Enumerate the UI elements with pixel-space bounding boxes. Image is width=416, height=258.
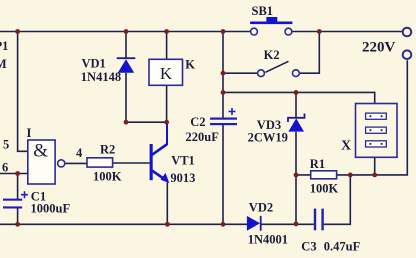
diode VD1 <box>117 58 136 72</box>
junction relay top <box>164 29 169 34</box>
switch K2 <box>258 61 300 76</box>
junction K2 rail <box>221 71 226 76</box>
wire C1 branch <box>17 174 19 225</box>
junction C3 riser top <box>348 173 353 178</box>
svg-text:R2: R2 <box>100 143 115 157</box>
wire R1 row <box>296 60 407 175</box>
junction X feed rail <box>221 90 226 95</box>
svg-text:K: K <box>160 64 173 83</box>
IC gate I (NAND) <box>28 140 65 184</box>
junction C1 bottom <box>15 222 20 227</box>
junction R1 left <box>294 173 299 178</box>
junction rail top <box>221 29 226 34</box>
wire emitter down <box>166 183 168 225</box>
terminal 220V top <box>403 28 412 37</box>
transistor VT1 <box>150 123 170 183</box>
wire VD1 branch <box>126 32 167 123</box>
resistor R1 <box>311 171 337 179</box>
svg-text:P1: P1 <box>0 39 8 53</box>
svg-text:VD1: VD1 <box>82 57 106 71</box>
wire pin6 input <box>0 173 28 175</box>
capacitor C3 <box>314 209 324 231</box>
relay coil K <box>149 59 183 85</box>
wire top rail left <box>0 31 251 33</box>
connector X <box>356 104 398 158</box>
wire VD3 branch <box>295 92 297 224</box>
resistor R2 <box>87 158 113 167</box>
svg-text:1N4148: 1N4148 <box>81 70 121 84</box>
junction rail bottom <box>221 222 226 227</box>
svg-text:0.47uF: 0.47uF <box>324 239 361 253</box>
junction X bottom <box>372 173 377 178</box>
junction pin6 <box>15 171 20 176</box>
junction VD1 corner <box>124 120 129 125</box>
junction VD3 top <box>294 90 299 95</box>
svg-text:1000uF: 1000uF <box>31 202 71 216</box>
svg-text:C2: C2 <box>190 115 205 129</box>
svg-text:X: X <box>341 139 351 154</box>
terminal 220V bottom <box>403 50 412 59</box>
svg-text:100K: 100K <box>93 170 122 184</box>
svg-text:6: 6 <box>2 161 8 175</box>
svg-text:220V: 220V <box>362 39 396 55</box>
wire middle rail C2 <box>222 32 224 225</box>
svg-text:220uF: 220uF <box>186 130 220 144</box>
wire bottom rail VD2 to C3 <box>261 223 314 225</box>
wire relay feed <box>166 32 168 123</box>
wire top rail right <box>292 31 402 33</box>
svg-text:C3: C3 <box>301 239 316 253</box>
svg-text:100K: 100K <box>310 182 339 196</box>
svg-text:R1: R1 <box>310 157 325 171</box>
diode VD2 <box>247 216 261 231</box>
junction emitter bottom <box>165 222 170 227</box>
svg-text:I: I <box>27 126 32 140</box>
wire pin4 <box>65 162 87 164</box>
svg-text:VT1: VT1 <box>171 154 195 168</box>
capacitor C1 <box>3 191 28 208</box>
wire bottom rail <box>0 223 247 225</box>
svg-text:5: 5 <box>3 138 9 152</box>
wire bottom rail C3 right riser <box>324 175 351 224</box>
capacitor C2 <box>210 108 237 125</box>
svg-text:K: K <box>185 57 195 71</box>
wire base <box>113 162 150 164</box>
junction collector <box>164 120 169 125</box>
svg-text:SB1: SB1 <box>252 4 274 18</box>
junction VD1 top <box>124 29 129 34</box>
svg-text:4: 4 <box>76 146 83 160</box>
svg-text:9013: 9013 <box>170 171 195 185</box>
svg-text:K2: K2 <box>264 48 280 62</box>
wire X feed top <box>223 92 375 103</box>
svg-text:M: M <box>0 57 7 71</box>
wire K2 branch <box>223 32 319 74</box>
svg-text:VD2: VD2 <box>249 200 273 214</box>
svg-text:2CW19: 2CW19 <box>248 131 288 145</box>
svg-text:&: & <box>33 141 48 162</box>
pushbutton SB1 <box>250 17 292 35</box>
gate output bubble <box>58 160 65 167</box>
wire X bottom feed <box>374 157 376 175</box>
svg-text:1N4001: 1N4001 <box>248 233 288 247</box>
zener VD3 <box>288 114 305 132</box>
junction top-left <box>15 29 20 34</box>
wire pin5 input L <box>18 32 29 152</box>
junction SB1 right <box>317 29 322 34</box>
junction VD3 bottom <box>294 222 299 227</box>
